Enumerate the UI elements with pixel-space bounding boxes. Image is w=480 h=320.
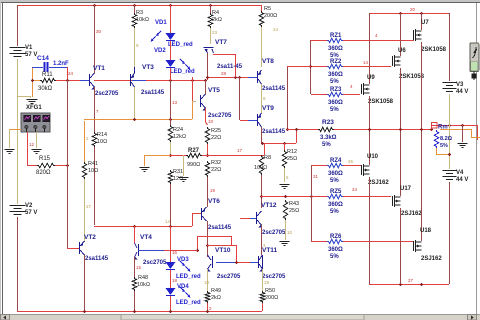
- svg-text:8.2Ω: 8.2Ω: [440, 136, 453, 142]
- svg-text:2SJ162: 2SJ162: [421, 256, 442, 262]
- svg-text:25Ω: 25Ω: [289, 208, 299, 214]
- svg-text:360Ω: 360Ω: [328, 247, 343, 253]
- svg-text:30kΩ: 30kΩ: [38, 86, 53, 92]
- svg-text:25Ω: 25Ω: [287, 156, 297, 162]
- svg-text:2SJ162: 2SJ162: [401, 211, 422, 217]
- svg-text:2SJ162: 2SJ162: [368, 180, 389, 186]
- svg-text:R32: R32: [211, 160, 221, 166]
- svg-text:30: 30: [96, 29, 102, 34]
- svg-text:VT4: VT4: [140, 234, 152, 241]
- svg-text:RZ1: RZ1: [330, 33, 342, 39]
- svg-text:44 V: 44 V: [456, 89, 468, 95]
- svg-text:10: 10: [287, 230, 293, 235]
- svg-text:3.3kΩ: 3.3kΩ: [320, 135, 337, 141]
- svg-text:57 V: 57 V: [25, 52, 37, 58]
- svg-text:5%: 5%: [330, 209, 339, 215]
- svg-text:R27: R27: [188, 148, 200, 154]
- svg-text:10Ω: 10Ω: [88, 168, 98, 174]
- svg-text:V4: V4: [456, 170, 464, 176]
- svg-text:28: 28: [221, 71, 227, 76]
- svg-text:RZ6: RZ6: [330, 234, 342, 240]
- svg-text:Rm: Rm: [438, 125, 448, 131]
- svg-text:12: 12: [29, 142, 35, 147]
- svg-text:24: 24: [352, 187, 358, 192]
- svg-text:31: 31: [313, 174, 319, 179]
- svg-text:5%: 5%: [440, 143, 448, 149]
- svg-text:U10: U10: [367, 154, 379, 160]
- svg-text:LED_red: LED_red: [170, 69, 195, 75]
- svg-text:2sa1145: 2sa1145: [262, 86, 286, 92]
- svg-text:24: 24: [273, 27, 279, 32]
- svg-text:2sc2705: 2sc2705: [262, 230, 286, 236]
- svg-text:VD2: VD2: [154, 48, 166, 54]
- svg-text:14: 14: [165, 219, 171, 224]
- svg-text:VT7: VT7: [215, 39, 227, 46]
- svg-text:5%: 5%: [330, 79, 339, 85]
- svg-text:V1: V1: [25, 45, 33, 51]
- svg-text:U9: U9: [367, 75, 375, 81]
- svg-text:5%: 5%: [330, 107, 339, 113]
- svg-text:2sc2705: 2sc2705: [217, 274, 241, 280]
- svg-text:24: 24: [68, 71, 74, 76]
- svg-text:2sa11-45: 2sa11-45: [217, 64, 243, 70]
- svg-text:44 V: 44 V: [456, 177, 468, 183]
- svg-text:VT2: VT2: [84, 234, 96, 241]
- svg-text:U17: U17: [400, 186, 412, 192]
- svg-text:18: 18: [172, 278, 178, 283]
- svg-text:200Ω: 200Ω: [265, 295, 278, 301]
- svg-text:R41: R41: [88, 161, 98, 167]
- svg-text:5%: 5%: [330, 178, 339, 184]
- svg-text:12Ω: 12Ω: [173, 176, 183, 182]
- svg-text:RZ5: RZ5: [330, 189, 342, 195]
- svg-text:990Ω: 990Ω: [187, 162, 200, 168]
- svg-text:360Ω: 360Ω: [328, 202, 343, 208]
- svg-text:19: 19: [264, 280, 270, 285]
- svg-text:RZ3: RZ3: [330, 87, 342, 93]
- svg-text:V2: V2: [25, 203, 33, 209]
- svg-text:LED_red: LED_red: [176, 300, 201, 306]
- svg-text:2kΩ: 2kΩ: [212, 17, 222, 23]
- svg-text:13: 13: [172, 100, 178, 105]
- svg-text:23: 23: [212, 30, 218, 35]
- svg-text:10kΩ: 10kΩ: [137, 282, 150, 288]
- svg-text:2SK1058: 2SK1058: [399, 74, 425, 80]
- svg-text:R15: R15: [39, 156, 51, 162]
- svg-text:VT10: VT10: [215, 247, 231, 254]
- svg-text:20: 20: [410, 7, 416, 12]
- svg-text:2kΩ: 2kΩ: [211, 295, 221, 301]
- svg-text:19: 19: [210, 188, 216, 193]
- svg-text:200Ω: 200Ω: [264, 13, 277, 19]
- svg-text:RZ2: RZ2: [330, 59, 342, 65]
- svg-text:2SK1058: 2SK1058: [368, 99, 394, 105]
- svg-text:VD4: VD4: [177, 284, 189, 290]
- svg-text:10: 10: [208, 119, 214, 124]
- svg-text:VD1: VD1: [155, 20, 167, 26]
- svg-text:R8: R8: [264, 155, 271, 161]
- svg-text:VT1: VT1: [93, 65, 105, 72]
- svg-text:R4: R4: [212, 10, 219, 16]
- svg-text:2sc2705: 2sc2705: [143, 260, 167, 266]
- svg-text:C14: C14: [37, 55, 49, 62]
- svg-text:2sa1145: 2sa1145: [85, 256, 109, 262]
- svg-text:22Ω: 22Ω: [211, 135, 221, 141]
- svg-text:360Ω: 360Ω: [328, 46, 343, 52]
- svg-text:LED_red: LED_red: [176, 274, 201, 280]
- svg-text:XFG1: XFG1: [26, 105, 42, 111]
- svg-text:10kΩ: 10kΩ: [136, 17, 149, 23]
- svg-text:R50: R50: [265, 288, 275, 294]
- svg-text:16: 16: [172, 250, 178, 255]
- svg-text:820Ω: 820Ω: [36, 170, 51, 176]
- svg-text:17: 17: [237, 148, 243, 153]
- svg-text:2SK1058: 2SK1058: [421, 47, 447, 53]
- svg-text:26: 26: [348, 159, 354, 164]
- svg-text:27: 27: [86, 204, 92, 209]
- svg-text:27: 27: [408, 278, 414, 283]
- svg-text:R25: R25: [211, 128, 221, 134]
- svg-text:U7: U7: [421, 20, 429, 26]
- svg-text:VT9: VT9: [262, 105, 274, 112]
- svg-text:R11: R11: [42, 72, 53, 78]
- svg-text:2sa1145: 2sa1145: [141, 90, 165, 96]
- svg-text:5%: 5%: [322, 142, 331, 148]
- svg-text:2sa1145: 2sa1145: [262, 129, 286, 135]
- svg-text:R23: R23: [322, 119, 334, 126]
- svg-text:U6: U6: [398, 48, 406, 54]
- svg-text:R5: R5: [264, 6, 271, 12]
- svg-text:15: 15: [136, 265, 142, 270]
- svg-text:R48: R48: [138, 275, 148, 281]
- svg-text:LED_red: LED_red: [168, 42, 193, 48]
- svg-text:360Ω: 360Ω: [328, 72, 343, 78]
- svg-text:18: 18: [204, 280, 210, 285]
- svg-text:R43: R43: [289, 201, 299, 207]
- svg-text:R12: R12: [287, 149, 297, 155]
- svg-text:R14: R14: [97, 132, 107, 138]
- svg-text:U18: U18: [420, 228, 432, 234]
- svg-text:2sc2705: 2sc2705: [95, 91, 119, 97]
- svg-text:R24: R24: [173, 127, 183, 133]
- svg-text:VD3: VD3: [177, 257, 189, 263]
- svg-text:12kΩ: 12kΩ: [173, 134, 186, 140]
- svg-text:360Ω: 360Ω: [328, 171, 343, 177]
- svg-text:VT3: VT3: [142, 64, 154, 71]
- svg-text:RZ4: RZ4: [330, 158, 342, 164]
- svg-text:R3: R3: [136, 10, 143, 16]
- svg-text:VT5: VT5: [208, 87, 220, 94]
- svg-text:R31: R31: [173, 169, 183, 175]
- svg-text:57 V: 57 V: [25, 210, 37, 216]
- svg-text:5%: 5%: [330, 254, 339, 260]
- svg-text:R49: R49: [211, 288, 221, 294]
- svg-text:10Ω: 10Ω: [97, 139, 107, 145]
- svg-text:1.2nF: 1.2nF: [53, 61, 69, 67]
- svg-text:VT6: VT6: [208, 198, 220, 205]
- svg-text:2sa1145: 2sa1145: [208, 225, 232, 231]
- svg-text:22Ω: 22Ω: [211, 167, 221, 173]
- svg-text:VT12: VT12: [261, 202, 277, 209]
- svg-text:V3: V3: [456, 82, 464, 88]
- svg-text:14: 14: [363, 60, 369, 65]
- svg-text:100Ω: 100Ω: [254, 165, 267, 171]
- svg-text:VT8: VT8: [262, 58, 274, 65]
- svg-text:360Ω: 360Ω: [328, 100, 343, 106]
- svg-text:VT11: VT11: [262, 247, 278, 254]
